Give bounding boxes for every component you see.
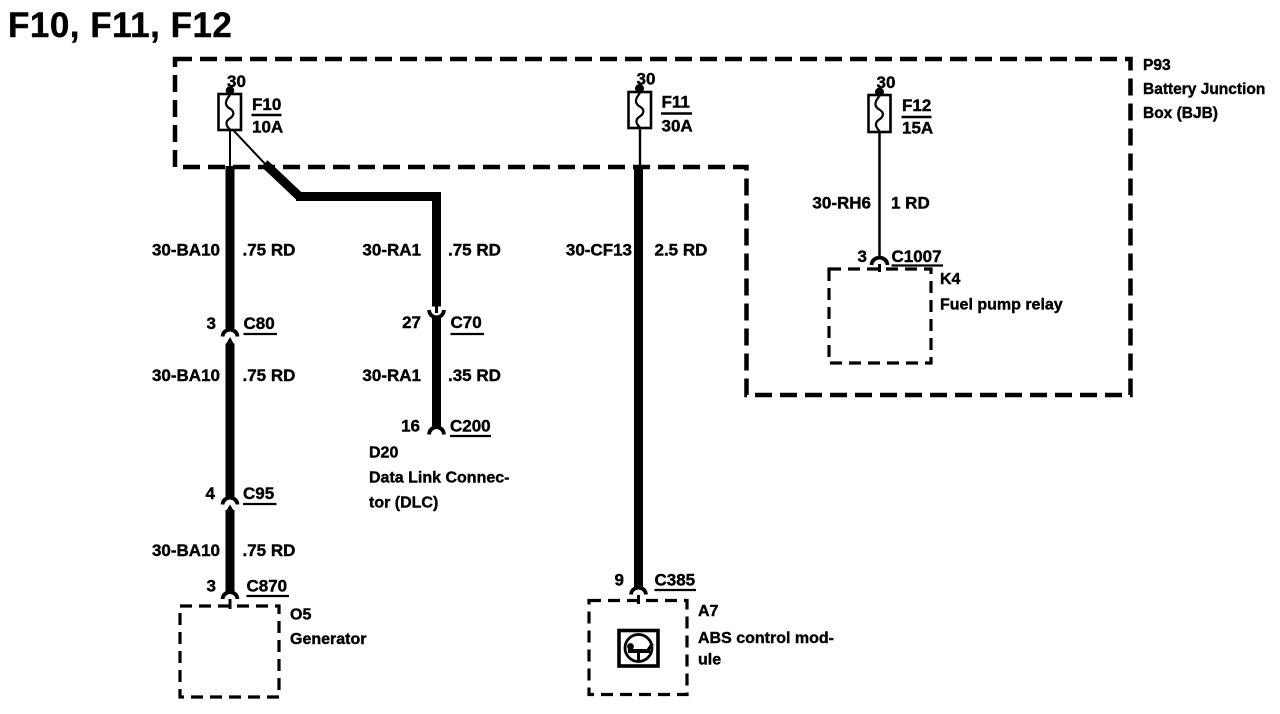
svg-text:C200: C200 xyxy=(450,417,491,436)
wire stub into relay box xyxy=(878,264,881,272)
wire label 30-RA1 .35 RD row2 xyxy=(362,366,501,385)
svg-text:.75 RD: .75 RD xyxy=(243,541,296,560)
node 30 label at F11 xyxy=(637,70,656,89)
svg-text:30-BA10: 30-BA10 xyxy=(152,241,220,260)
svg-text:1 RD: 1 RD xyxy=(891,194,930,213)
ABS control module A7 dashed box xyxy=(589,601,687,695)
generator O5 dashed box xyxy=(180,606,279,697)
svg-text:C80: C80 xyxy=(244,314,275,333)
svg-text:C385: C385 xyxy=(655,571,696,590)
svg-text:A7: A7 xyxy=(698,603,719,620)
wire thick 30-CF13 from F11 to C385 xyxy=(639,128,641,168)
wire label 30-BA10 .75 RD row2 xyxy=(152,366,295,385)
wire label 30-CF13 2.5 RD xyxy=(566,241,708,260)
generator O5 name label xyxy=(290,607,366,649)
svg-text:.35 RD: .35 RD xyxy=(448,366,501,385)
svg-text:2.5 RD: 2.5 RD xyxy=(655,241,708,260)
connector C80 xyxy=(207,314,277,345)
wire stub into ABS box xyxy=(637,595,640,604)
node 30 label at F12 xyxy=(877,73,896,92)
svg-text:.75 RD: .75 RD xyxy=(243,241,296,260)
fuse F12 xyxy=(869,95,891,132)
wire thick horizontal branch 30-RA1 xyxy=(296,192,441,201)
svg-text:Fuel pump relay: Fuel pump relay xyxy=(940,297,1063,314)
connector C70 xyxy=(402,305,484,334)
wire thin from F10 inside BJB xyxy=(229,130,231,168)
P93 battery junction box name xyxy=(1143,57,1265,122)
svg-text:30-CF13: 30-CF13 xyxy=(566,241,632,260)
connector C95 xyxy=(206,484,277,512)
svg-text:Battery Junction: Battery Junction xyxy=(1143,81,1265,98)
svg-text:C1007: C1007 xyxy=(892,247,942,266)
fuse F10 value label 10A xyxy=(252,95,284,137)
junction dot at F11 top xyxy=(635,84,644,93)
svg-text:3: 3 xyxy=(207,577,216,596)
fuel pump relay K4 dashed box xyxy=(829,269,931,363)
wire label 30-BA10 .75 RD row1 xyxy=(152,241,295,260)
node 30 label at F10 xyxy=(227,72,246,91)
fuse F11 xyxy=(629,92,652,128)
junction dot at F10 top xyxy=(226,86,235,95)
svg-text:C95: C95 xyxy=(243,484,274,503)
wire thick 30-BA10 from C95 to C870 xyxy=(226,510,235,592)
connector C200 wire end xyxy=(401,417,491,437)
svg-text:27: 27 xyxy=(402,313,421,332)
svg-text:30-BA10: 30-BA10 xyxy=(152,541,220,560)
wire thick diagonal branch 30-RA1 xyxy=(265,164,301,198)
svg-text:3: 3 xyxy=(858,247,867,266)
wire thick 30-BA10 from BJB to C80 xyxy=(226,166,235,329)
svg-text:ule: ule xyxy=(698,652,721,669)
svg-text:D20: D20 xyxy=(369,445,398,462)
wire thick 30-BA10 from C80 to C95 xyxy=(226,344,235,498)
svg-text:30-BA10: 30-BA10 xyxy=(152,366,220,385)
svg-text:C870: C870 xyxy=(247,577,288,596)
wire thick 30-RA1 from C70 to C200 xyxy=(432,316,441,427)
connector C870 xyxy=(207,577,289,600)
svg-text:Box (BJB): Box (BJB) xyxy=(1143,105,1218,122)
wire stub into generator box xyxy=(229,599,232,609)
fuse F11 value label 30A xyxy=(661,93,693,136)
svg-text:.75 RD: .75 RD xyxy=(448,241,501,260)
svg-text:16: 16 xyxy=(401,417,420,436)
ABS module icon xyxy=(619,631,658,667)
wire thin 30-RH6 from F12 to C1007 xyxy=(878,131,881,257)
svg-text:9: 9 xyxy=(615,571,624,590)
svg-text:tor (DLC): tor (DLC) xyxy=(369,495,438,512)
svg-text:4: 4 xyxy=(206,484,216,503)
battery junction box P93 dashed boundary xyxy=(175,59,1131,395)
svg-text:F12: F12 xyxy=(902,96,931,115)
svg-text:30A: 30A xyxy=(662,117,693,136)
svg-text:3: 3 xyxy=(207,314,216,333)
fuel pump relay K4 name label xyxy=(940,271,1063,314)
svg-text:30-RA1: 30-RA1 xyxy=(362,366,421,385)
connector C385 xyxy=(615,571,696,595)
svg-text:F11: F11 xyxy=(662,93,690,112)
svg-text:O5: O5 xyxy=(290,607,311,624)
svg-text:K4: K4 xyxy=(940,271,961,288)
junction dot at F12 top xyxy=(875,88,884,97)
wire label 30-BA10 .75 RD row3 xyxy=(152,541,295,560)
svg-text:ABS control mod-: ABS control mod- xyxy=(698,630,834,647)
wire label 30-RA1 .75 RD row1 xyxy=(362,241,501,260)
title F10, F11, F12 xyxy=(8,6,232,45)
svg-text:C70: C70 xyxy=(451,313,482,332)
ABS control module A7 name label xyxy=(698,603,834,669)
svg-text:Generator: Generator xyxy=(290,631,366,648)
svg-text:F10: F10 xyxy=(252,95,281,114)
svg-text:P93: P93 xyxy=(1143,57,1171,74)
connector C1007 xyxy=(858,247,943,266)
wire label 30-RH6 1 RD xyxy=(812,194,929,213)
wire thick below BJB xyxy=(634,166,643,587)
node D20 data link connector label xyxy=(369,445,509,512)
svg-text:15A: 15A xyxy=(902,119,933,138)
svg-text:10A: 10A xyxy=(252,118,283,137)
svg-text:F10, F11, F12: F10, F11, F12 xyxy=(8,6,232,45)
svg-text:Data Link Connec-: Data Link Connec- xyxy=(369,470,509,487)
wire thin diagonal from F10 xyxy=(234,131,269,168)
svg-text:30-RA1: 30-RA1 xyxy=(362,241,421,260)
wire thick vertical to C70 xyxy=(432,192,441,307)
fuse F12 value label 15A xyxy=(902,96,934,138)
svg-text:30-RH6: 30-RH6 xyxy=(812,194,871,213)
fuse F10 xyxy=(219,94,242,130)
svg-text:.75 RD: .75 RD xyxy=(243,366,296,385)
